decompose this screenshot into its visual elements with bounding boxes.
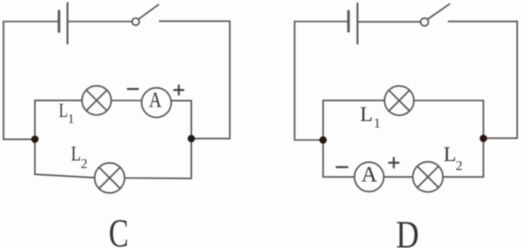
- wire left stub through node down to bottom branch (circuit D): [322, 100, 324, 176]
- ammeter A (circuit C): [142, 88, 172, 118]
- svg-text:2: 2: [456, 158, 463, 173]
- wire ammeter to lamp L2 (circuit D): [384, 176, 413, 178]
- wire switch to top-right corner and down right side (circuit C): [160, 21, 230, 138]
- svg-text:A: A: [149, 87, 162, 112]
- svg-text:A: A: [361, 162, 377, 187]
- wire lamp L2 to right stub (circuit D): [443, 176, 483, 178]
- svg-text:2: 2: [81, 156, 88, 171]
- wire right stub down through node (circuit C): [190, 101, 192, 179]
- plus polarity mark (circuit D): [389, 158, 399, 168]
- wire bottom branch left (circuit C): [35, 174, 95, 177]
- node junction dot right (circuit C): [188, 135, 195, 142]
- wire left side down (circuit C): [4, 22, 35, 140]
- wire left stub through node down to bottom branch (circuit C): [34, 100, 36, 174]
- node junction dot left (circuit D): [319, 136, 326, 143]
- lamp L1 (circuit C): [82, 86, 111, 115]
- wire right stub down through node (circuit D): [482, 101, 484, 177]
- ammeter A (circuit D): [354, 162, 383, 191]
- wire top-left segment (circuit D): [295, 21, 349, 23]
- wire middle branch left (circuit D): [323, 99, 384, 101]
- node junction dot left (circuit C): [31, 136, 38, 143]
- node junction dot right (circuit D): [480, 135, 487, 142]
- wire bottom branch left to ammeter (circuit D): [323, 176, 354, 178]
- svg-text:L: L: [59, 100, 68, 122]
- lamp L1 (circuit D): [385, 86, 414, 115]
- svg-text:1: 1: [374, 115, 381, 130]
- svg-text:L: L: [360, 102, 373, 126]
- switch S (circuit C): [132, 5, 158, 26]
- battery (circuit D): [349, 3, 358, 43]
- wire battery to switch (circuit D): [358, 21, 421, 23]
- plus polarity mark (circuit C): [174, 85, 183, 94]
- svg-text:L: L: [444, 142, 457, 166]
- wire lamp L1 to ammeter (circuit C): [111, 100, 141, 102]
- wire left side down (circuit D): [295, 22, 324, 141]
- svg-text:1: 1: [68, 111, 75, 126]
- svg-text:D: D: [396, 214, 419, 248]
- wire middle branch left (circuit C): [35, 99, 82, 101]
- svg-text:L: L: [71, 142, 81, 166]
- wire bottom branch right (circuit C): [125, 177, 192, 179]
- wire battery to switch (circuit C): [68, 21, 133, 23]
- wire ammeter to right stub (circuit C): [171, 100, 191, 102]
- battery (circuit C): [59, 3, 68, 44]
- switch S (circuit D): [421, 4, 450, 26]
- svg-text:C: C: [109, 211, 129, 248]
- minus polarity mark (circuit C): [128, 88, 138, 90]
- wire switch to top-right corner and down right side (circuit D): [449, 21, 518, 138]
- lamp L2 (circuit C): [95, 163, 125, 193]
- wire lamp L1 to right stub (circuit D): [414, 100, 484, 102]
- wire right connector to node (circuit C): [191, 138, 230, 140]
- wire right connector to node (circuit D): [483, 137, 517, 139]
- lamp L2 (circuit D): [413, 162, 443, 192]
- wire top-left segment (circuit C): [4, 21, 60, 23]
- minus polarity mark (circuit D): [337, 166, 348, 168]
